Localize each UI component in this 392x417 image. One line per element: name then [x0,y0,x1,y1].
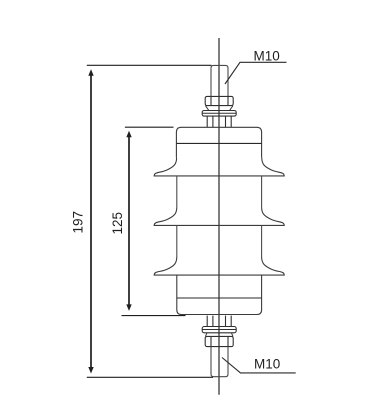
dimension 125 top extension line [125,126,174,128]
top flange washer mid line [202,112,236,114]
svg-text:M10: M10 [254,48,280,63]
svg-text:197: 197 [70,211,85,234]
top cap joint line [176,142,261,144]
bottom cap joint line [177,297,262,299]
shed 1 [154,158,284,176]
bottom M10 leader [222,358,296,373]
top terminal pins [206,116,208,127]
top nut [205,96,233,105]
dimension 197 bottom extension line [87,376,213,378]
top cap housing [176,127,261,157]
svg-text:M10: M10 [254,356,280,371]
bottom nut facet lines [210,336,212,346]
shed 2 [154,207,284,225]
top nut facet lines [210,96,212,105]
bottom chamfer washer [205,333,207,337]
core segment between shed 1 and shed 2 [176,176,178,207]
top stud M10 [211,65,228,96]
svg-text:125: 125 [110,212,125,235]
dimension 125 line with arrows [128,136,130,306]
bottom stud M10 [211,347,228,377]
dimension 197 top extension line [87,64,212,66]
top flange washer [202,111,236,117]
top chamfer washer [205,106,208,111]
centerline [218,38,220,395]
bottom nut [205,336,233,346]
top M10 leader [225,62,287,84]
shed 3 [154,257,284,275]
bottom flange washer mid line [202,329,236,331]
bottom flange washer [202,327,236,333]
core segment between shed 2 and shed 3 [176,225,178,257]
bottom cap housing [177,275,262,314]
dimension 125 bottom extension line [122,315,186,317]
bottom terminal pins [206,316,208,327]
dimension 197 line with arrows [90,75,92,369]
